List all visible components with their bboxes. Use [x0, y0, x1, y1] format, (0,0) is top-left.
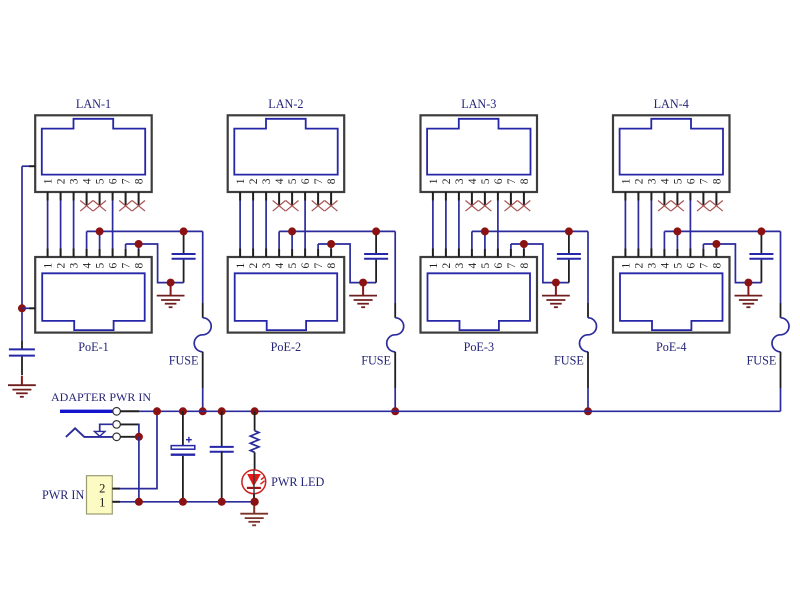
- svg-text:5: 5: [287, 262, 299, 268]
- wire LAN-4 pin2 to PoE-4 pin2: [637, 192, 639, 257]
- connector LAN-2 outline: [228, 115, 345, 192]
- wire LAN-4 pin3 to PoE-4 pin3: [650, 192, 652, 257]
- no-connect X LAN-4 pin5: [671, 201, 684, 212]
- svg-text:4: 4: [274, 262, 286, 268]
- no-connect stub LAN-3 pin7: [510, 192, 512, 206]
- svg-text:4: 4: [82, 262, 94, 268]
- wire net A (pins 4,5 to cap and fuse): [472, 230, 588, 232]
- svg-text:5: 5: [672, 178, 684, 184]
- wire PoE-1 pin4 riser: [86, 231, 88, 257]
- resistor R1: [250, 431, 259, 453]
- svg-text:7: 7: [313, 178, 325, 184]
- ground (PoE-3 pins 7,8): [542, 286, 570, 307]
- wire PoE-2 pin4 riser: [278, 231, 280, 257]
- junction ground/net B: [359, 279, 367, 287]
- junction jack negative/ground rail: [135, 498, 143, 506]
- wire net A (pins 4,5 to cap and fuse): [87, 230, 203, 232]
- svg-text:8: 8: [326, 262, 338, 268]
- wire PoE-1 pin5 riser: [99, 231, 101, 257]
- connector PoE-4 outline: [613, 257, 730, 333]
- wire PoE-2 pin8 riser: [330, 244, 332, 257]
- svg-text:1: 1: [428, 178, 440, 184]
- svg-text:PoE-3: PoE-3: [464, 340, 494, 354]
- svg-text:4: 4: [82, 178, 94, 184]
- svg-text:3: 3: [454, 262, 466, 268]
- pin numbers LAN-1 (1-8): [43, 178, 146, 184]
- DC jack pin 1 terminal: [113, 408, 121, 416]
- wire PoE-4 pin8 riser: [715, 244, 717, 257]
- svg-text:5: 5: [95, 178, 107, 184]
- pin numbers LAN-4 (1-8): [620, 178, 723, 184]
- svg-text:5: 5: [287, 178, 299, 184]
- junction fuse F1/power bus: [199, 407, 207, 415]
- junction fuse F2/power bus: [391, 407, 399, 415]
- no-connect X LAN-3 pin7: [505, 201, 518, 212]
- junction pin8/net B: [712, 240, 720, 248]
- no-connect stub LAN-1 pin7: [125, 192, 127, 206]
- wire PoE-1 pin7 riser: [125, 244, 127, 257]
- svg-text:6: 6: [300, 178, 312, 184]
- svg-text:7: 7: [506, 178, 518, 184]
- wire LAN-2 pin3 to PoE-2 pin3: [265, 192, 267, 257]
- svg-text:PoE-1: PoE-1: [78, 340, 108, 354]
- svg-text:3: 3: [69, 178, 81, 184]
- no-connect stub LAN-4 pin5: [676, 192, 678, 206]
- svg-text:2: 2: [248, 178, 260, 184]
- svg-text:LAN-3: LAN-3: [461, 97, 496, 111]
- fuse F3: [580, 231, 597, 411]
- pin numbers LAN-3 (1-8): [428, 178, 531, 184]
- connector LAN-3 jack inner: [427, 119, 530, 175]
- LED D1 (PWR LED): [242, 470, 266, 502]
- no-connect stub LAN-2 pin5: [291, 192, 293, 206]
- junction cap C1/net A: [180, 227, 188, 235]
- svg-text:1: 1: [620, 262, 632, 268]
- DC jack pin 3 stub: [120, 436, 138, 438]
- fuse F4: [772, 231, 789, 411]
- wire PoE-3 pin4 riser: [471, 231, 473, 257]
- capacitor C4: [749, 254, 773, 259]
- no-connect stub LAN-3 pin5: [484, 192, 486, 206]
- svg-text:3: 3: [646, 262, 658, 268]
- fuse F2: [387, 231, 404, 411]
- svg-text:2: 2: [441, 262, 453, 268]
- svg-text:6: 6: [108, 178, 120, 184]
- connector PWR IN box: [87, 476, 113, 514]
- power bus wire: [139, 410, 781, 412]
- svg-text:2: 2: [441, 178, 453, 184]
- wire PoE-4 pin4 riser: [663, 231, 665, 257]
- wire LAN-1 pin1 to PoE-1 pin1: [47, 192, 49, 257]
- connector PoE-3 outline: [421, 257, 538, 333]
- svg-text:LAN-4: LAN-4: [654, 97, 689, 111]
- wire PWR IN pin 1 ground rail: [112, 501, 254, 503]
- svg-text:8: 8: [519, 262, 531, 268]
- no-connect stub LAN-4 pin7: [702, 192, 704, 206]
- no-connect X LAN-2 pin7: [312, 201, 325, 212]
- wire PoE-4 pin7 riser: [702, 244, 704, 257]
- wire LAN-3 pin1 to PoE-3 pin1: [432, 192, 434, 257]
- wire PWR IN pin 2 to bus: [112, 411, 157, 488]
- wire net B (pins 7,8 to ground): [126, 244, 184, 283]
- svg-text:6: 6: [685, 262, 697, 268]
- svg-text:8: 8: [134, 262, 146, 268]
- svg-text:8: 8: [326, 178, 338, 184]
- capacitor C5 bottom lead: [21, 357, 23, 375]
- wire LAN-1 shield stub: [22, 165, 35, 167]
- svg-text:4: 4: [467, 178, 479, 184]
- svg-text:1: 1: [43, 178, 55, 184]
- pin numbers PoE-4 (1-8): [620, 262, 723, 268]
- capacitor C1: [172, 254, 196, 259]
- svg-text:LAN-1: LAN-1: [76, 97, 111, 111]
- no-connect stub LAN-1 pin4: [86, 192, 88, 206]
- no-connect stub LAN-4 pin8: [715, 192, 717, 206]
- capacitor C6 (polarized): [171, 446, 196, 455]
- wire LAN-2 pin2 to PoE-2 pin2: [252, 192, 254, 257]
- capacitor C7 bottom lead: [221, 452, 223, 502]
- svg-text:6: 6: [493, 262, 505, 268]
- wire net B (pins 7,8 to ground): [318, 244, 376, 283]
- svg-text:4: 4: [659, 178, 671, 184]
- svg-text:8: 8: [711, 178, 723, 184]
- junction cap C3/net A: [565, 227, 573, 235]
- junction pin8/net B: [520, 240, 528, 248]
- wire net A (pins 4,5 to cap and fuse): [664, 230, 780, 232]
- svg-text:7: 7: [506, 262, 518, 268]
- wire jack negative down: [138, 437, 140, 502]
- capacitor C1 leads: [183, 231, 185, 282]
- connector PoE-4 jack inner: [620, 273, 723, 330]
- DC jack J1 center pin bar: [60, 410, 113, 413]
- svg-text:7: 7: [698, 178, 710, 184]
- no-connect stub LAN-3 pin4: [471, 192, 473, 206]
- junction shield/PoE-1: [18, 304, 26, 312]
- junction ground/net B: [744, 279, 752, 287]
- junction pin2 riser/bus: [153, 407, 161, 415]
- wire PoE-2 pin5 riser: [291, 231, 293, 257]
- svg-text:PWR LED: PWR LED: [271, 475, 324, 489]
- connector PoE-2 jack inner: [235, 273, 338, 330]
- svg-text:2: 2: [56, 262, 68, 268]
- svg-text:5: 5: [480, 262, 492, 268]
- svg-text:8: 8: [519, 178, 531, 184]
- connector LAN-4 jack inner: [620, 119, 723, 175]
- svg-text:7: 7: [698, 262, 710, 268]
- no-connect X LAN-3 pin8: [518, 201, 531, 212]
- junction pin8/net B: [327, 240, 335, 248]
- capacitor C4 leads: [760, 231, 762, 282]
- capacitor C7: [210, 447, 234, 452]
- no-connect X LAN-1 pin4: [80, 201, 93, 212]
- junction LED/ground rail: [250, 498, 258, 506]
- junction pin8/net B: [135, 240, 143, 248]
- ground (PoE-1 pins 7,8): [157, 286, 185, 307]
- wire PoE-4 pin5 riser: [676, 231, 678, 257]
- connector PoE-1 outline: [35, 257, 152, 333]
- svg-text:6: 6: [493, 178, 505, 184]
- connector LAN-1 outline: [35, 115, 152, 192]
- ground (shield): [8, 376, 36, 397]
- svg-text:7: 7: [313, 262, 325, 268]
- junction C7/bus: [218, 407, 226, 415]
- capacitor C5 (shield): [9, 349, 35, 355]
- wire LAN-3 pin2 to PoE-3 pin2: [445, 192, 447, 257]
- resistor R1 top lead: [254, 411, 256, 430]
- svg-text:4: 4: [659, 262, 671, 268]
- no-connect X LAN-2 pin5: [286, 201, 299, 212]
- wire net B (pins 7,8 to ground): [703, 244, 761, 283]
- svg-text:2: 2: [56, 178, 68, 184]
- junction ground/net B: [552, 279, 560, 287]
- junction fuse F3/power bus: [584, 407, 592, 415]
- wire LAN-3 pin3 to PoE-3 pin3: [458, 192, 460, 257]
- svg-text:3: 3: [261, 178, 273, 184]
- junction cap C2/net A: [372, 227, 380, 235]
- junction pin5/net A: [673, 227, 681, 235]
- svg-text:FUSE: FUSE: [169, 354, 199, 368]
- svg-text:1: 1: [620, 178, 632, 184]
- svg-text:6: 6: [108, 262, 120, 268]
- pin numbers PoE-2 (1-8): [235, 262, 338, 268]
- wire PoE-1 shield stub: [22, 307, 35, 309]
- svg-text:7: 7: [121, 262, 133, 268]
- svg-text:ADAPTER PWR IN: ADAPTER PWR IN: [51, 390, 151, 404]
- junction C6/ground rail: [179, 498, 187, 506]
- connector PoE-2 outline: [228, 257, 345, 333]
- capacitor C6 plus sign: [186, 437, 192, 443]
- no-connect X LAN-3 pin4: [466, 201, 479, 212]
- DC jack pin 2 wire: [120, 424, 138, 437]
- capacitor C3: [557, 254, 581, 259]
- connector PoE-1 jack inner: [42, 273, 145, 330]
- svg-text:2: 2: [248, 262, 260, 268]
- wire PoE-2 pin7 riser: [317, 244, 319, 257]
- svg-text:PoE-2: PoE-2: [271, 340, 301, 354]
- wire LAN-4 pin6 to PoE-4 pin6: [689, 192, 691, 257]
- wire LAN-1 pin2 to PoE-1 pin2: [60, 192, 62, 257]
- capacitor C3 leads: [568, 231, 570, 282]
- wire PoE-1 pin8 riser: [138, 244, 140, 257]
- wire PoE-3 pin5 riser: [484, 231, 486, 257]
- DC jack sleeve zigzag: [66, 428, 113, 437]
- DC jack pin 1 stub: [120, 410, 139, 412]
- svg-text:3: 3: [646, 178, 658, 184]
- DC jack pin 2 terminal: [113, 421, 121, 429]
- svg-text:4: 4: [274, 178, 286, 184]
- no-connect stub LAN-3 pin8: [523, 192, 525, 206]
- no-connect stub LAN-1 pin8: [138, 192, 140, 206]
- fuse F1: [194, 231, 211, 411]
- svg-text:FUSE: FUSE: [554, 354, 584, 368]
- wire net A (pins 4,5 to cap and fuse): [279, 230, 395, 232]
- wire LAN-1 pin3 to PoE-1 pin3: [73, 192, 75, 257]
- no-connect X LAN-2 pin8: [325, 201, 338, 212]
- ground (PoE-2 pins 7,8): [349, 286, 377, 307]
- svg-text:1: 1: [43, 262, 55, 268]
- svg-text:1: 1: [99, 495, 105, 509]
- ground (power): [240, 506, 268, 526]
- wire LAN-3 pin6 to PoE-3 pin6: [497, 192, 499, 257]
- no-connect X LAN-4 pin4: [658, 201, 671, 212]
- no-connect X LAN-4 pin7: [697, 201, 710, 212]
- no-connect X LAN-1 pin8: [132, 201, 145, 212]
- svg-text:7: 7: [121, 178, 133, 184]
- capacitor C6 bottom lead: [182, 456, 184, 502]
- ground (PoE-4 pins 7,8): [735, 286, 763, 307]
- connector PoE-3 jack inner: [428, 273, 531, 330]
- pin numbers PoE-3 (1-8): [428, 262, 531, 268]
- junction pin5/net A: [288, 227, 296, 235]
- no-connect stub LAN-2 pin8: [330, 192, 332, 206]
- capacitor C6 top lead: [182, 411, 184, 445]
- svg-text:8: 8: [711, 262, 723, 268]
- svg-text:8: 8: [134, 178, 146, 184]
- connector LAN-1 jack inner: [42, 119, 145, 175]
- capacitor C2 leads: [375, 231, 377, 282]
- svg-text:4: 4: [467, 262, 479, 268]
- svg-text:PWR IN: PWR IN: [42, 488, 85, 502]
- svg-text:1: 1: [235, 262, 247, 268]
- svg-text:2: 2: [633, 262, 645, 268]
- junction C7/ground rail: [218, 498, 226, 506]
- DC jack switch arm arrow: [94, 424, 113, 436]
- junction C6/bus: [179, 407, 187, 415]
- no-connect X LAN-1 pin5: [93, 201, 106, 212]
- svg-text:2: 2: [633, 178, 645, 184]
- junction cap C4/net A: [757, 227, 765, 235]
- wire LAN-4 pin1 to PoE-4 pin1: [624, 192, 626, 257]
- svg-text:FUSE: FUSE: [361, 354, 391, 368]
- wire LAN-2 pin1 to PoE-2 pin1: [239, 192, 241, 257]
- LED D1 bottom lead: [253, 494, 255, 502]
- connector LAN-2 jack inner: [234, 119, 337, 175]
- no-connect stub LAN-2 pin4: [278, 192, 280, 206]
- svg-text:FUSE: FUSE: [746, 354, 776, 368]
- wire net B (pins 7,8 to ground): [511, 244, 569, 283]
- svg-text:LAN-2: LAN-2: [268, 97, 303, 111]
- svg-text:6: 6: [685, 178, 697, 184]
- junction R1/bus: [251, 407, 259, 415]
- no-connect stub LAN-1 pin5: [99, 192, 101, 206]
- no-connect stub LAN-2 pin7: [317, 192, 319, 206]
- svg-text:1: 1: [235, 178, 247, 184]
- wire LAN-1 pin6 to PoE-1 pin6: [112, 192, 114, 257]
- svg-text:PoE-4: PoE-4: [656, 340, 686, 354]
- no-connect X LAN-3 pin5: [479, 201, 492, 212]
- wire PoE-3 pin7 riser: [510, 244, 512, 257]
- no-connect stub LAN-4 pin4: [663, 192, 665, 206]
- svg-text:6: 6: [300, 262, 312, 268]
- junction jack pins 2,3: [135, 433, 143, 441]
- wire LAN-2 pin6 to PoE-2 pin6: [304, 192, 306, 257]
- pin numbers PoE-1 (1-8): [43, 262, 146, 268]
- junction pin5/net A: [481, 227, 489, 235]
- no-connect X LAN-4 pin8: [710, 201, 723, 212]
- capacitor C2: [364, 254, 388, 259]
- DC jack pin 3 terminal: [113, 433, 121, 441]
- wire shield vertical: [21, 166, 23, 348]
- svg-text:3: 3: [69, 262, 81, 268]
- svg-text:2: 2: [99, 482, 105, 496]
- wire PoE-3 pin8 riser: [523, 244, 525, 257]
- junction ground/net B: [167, 279, 175, 287]
- connector LAN-4 outline: [613, 115, 730, 192]
- connector LAN-3 outline: [421, 115, 538, 192]
- no-connect X LAN-1 pin7: [119, 201, 132, 212]
- no-connect X LAN-2 pin4: [273, 201, 286, 212]
- svg-text:5: 5: [95, 262, 107, 268]
- svg-text:3: 3: [454, 178, 466, 184]
- svg-text:5: 5: [672, 262, 684, 268]
- svg-text:3: 3: [261, 262, 273, 268]
- capacitor C7 top lead: [221, 411, 223, 447]
- svg-text:1: 1: [428, 262, 440, 268]
- resistor R1 bottom lead: [254, 452, 256, 470]
- pin numbers LAN-2 (1-8): [235, 178, 338, 184]
- junction pin5/net A: [96, 227, 104, 235]
- svg-text:5: 5: [480, 178, 492, 184]
